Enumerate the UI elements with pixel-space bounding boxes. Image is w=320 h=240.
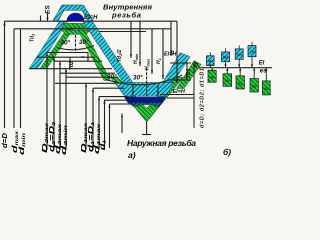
ES arrow vertical top-left (47, 14, 49, 22)
right flank level stub y63 (170, 62, 191, 64)
valley angle arc (106, 75, 182, 85)
right stub y94.5 (160, 94, 194, 96)
arrow line into V underside (121, 114, 123, 134)
rising flank cyan strip (160, 53, 190, 87)
level line y88 (93, 87, 124, 89)
svg-text:а): а) (128, 150, 136, 160)
tolerance box cyan 3 (235, 49, 243, 59)
svg-text:ES: ES (45, 5, 52, 14)
connector cyan2 (225, 62, 227, 68)
arrow axis cyan connector (238, 64, 240, 67)
left vertical dmin (20, 29, 22, 128)
arrow valley2 (157, 92, 159, 96)
svg-text:4h: 4h (210, 75, 215, 80)
right flank level stub y80 (173, 79, 191, 81)
connector green1 (211, 68, 213, 71)
svg-text:6h: 6h (225, 78, 230, 83)
left flank green zone strip (40, 24, 77, 69)
apex cyan cap (53, 5, 94, 21)
svg-text:4H: 4H (208, 59, 213, 64)
connector green3 (239, 68, 241, 76)
svg-text:30°: 30° (61, 39, 71, 47)
arrow H4 (162, 75, 164, 79)
svg-text:es: es (260, 69, 267, 75)
arrow at level line x109.5 (108, 104, 110, 107)
valley inner arrow line 1 (132, 85, 134, 97)
valley green V band (111, 78, 184, 123)
svg-text:6e: 6e (252, 84, 257, 89)
tolerance box cyan 1 (207, 56, 215, 66)
apex navy dome (rounded nut root) (67, 13, 84, 21)
mid level line y68.5 (band cut) (29, 68, 112, 70)
connector green5 (265, 68, 267, 81)
arrow axis green connector (226, 68, 228, 71)
connector green4 (253, 68, 255, 79)
arrow at level line x54 (53, 57, 55, 60)
tick above cyan box1 (209, 52, 211, 56)
svg-text:7H: 7H (249, 49, 254, 54)
svg-text:Наружная резьба: Наружная резьба (127, 138, 196, 148)
arrow at level line x86 (85, 83, 87, 86)
apex angle arc (57, 46, 94, 50)
rising flank green strip (177, 61, 202, 89)
H-stack vertical 3 (151, 29, 153, 74)
svg-text:EI=H: EI=H (84, 15, 98, 21)
svg-text:30°: 30° (79, 38, 89, 46)
nominal diameter vertical (193, 62, 195, 128)
connector cyan4 (251, 57, 253, 68)
tick below ES line (40, 16, 42, 22)
H-stack vertical 6 (176, 21, 178, 83)
arrow at level line x66 (65, 69, 67, 72)
arrow H6 (176, 79, 178, 83)
line below V tip (146, 122, 148, 135)
level line y31.5 (99, 31, 146, 33)
arrow H3 (151, 70, 153, 74)
interior tick x88 (87, 53, 89, 62)
T bar below V tip (142, 134, 151, 136)
arrow axis cyan connector (224, 64, 226, 67)
svg-text:30°: 30° (107, 73, 117, 81)
arrow H2 (139, 62, 141, 66)
cluster2 vertical 5 (109, 104, 111, 148)
tolerance box green 1 (208, 70, 216, 82)
descending flank cyan strip (83, 22, 134, 85)
svg-text:6d: 6d (264, 86, 269, 91)
arrow V underside (121, 114, 123, 118)
arrow valley1 (132, 92, 134, 96)
arrow at level line x93 (92, 88, 94, 91)
H-stack vertical 5 (170, 21, 172, 56)
valley inner arrow line 2 (157, 85, 159, 97)
svg-text:Td2: Td2 (69, 61, 75, 70)
tick above cyan box4 (251, 42, 253, 46)
arrow at level line x47 (46, 53, 48, 56)
cluster2 vertical D1max (85, 83, 87, 150)
valley navy band (rounded bolt root) (125, 97, 166, 102)
left vertical dmax (13, 29, 15, 128)
svg-text:6g: 6g (238, 81, 243, 86)
b-diagram (194, 62, 272, 128)
horizontal line y29 (14, 28, 171, 30)
arrow H5 (170, 52, 172, 56)
svg-text:6H: 6H (237, 52, 242, 57)
svg-text:резьба: резьба (111, 11, 141, 20)
valley cyan trapezoid (115, 83, 175, 97)
tolerance box cyan 2 (222, 52, 230, 62)
cluster1 vertical d2max (59, 61, 61, 150)
level line y83.5 to valley (55, 82, 116, 84)
dimension line network (5, 14, 195, 151)
right stub y98 (167, 97, 194, 99)
svg-text:H: H (170, 50, 176, 54)
tick above cyan box2 (225, 48, 227, 52)
tolerance box green 4 (250, 79, 258, 92)
zero axis (198, 67, 272, 69)
arrow at level line x104.5 (103, 100, 105, 103)
cluster1 vertical d2min (65, 69, 67, 150)
tick above cyan box3 (238, 45, 240, 49)
arrowheads (3, 18, 267, 118)
connector green2 (226, 68, 228, 74)
tolerance box green 3 (236, 76, 244, 89)
arrow at d=D top (3, 21, 5, 25)
svg-text:ЕI: ЕI (259, 61, 265, 67)
svg-text:EI=H: EI=H (173, 89, 186, 95)
H-stack vertical 4 (162, 29, 164, 79)
mid level line y61 (54, 60, 102, 62)
descending flank green strip (78, 30, 111, 81)
horizontal line y21 (crest D line) (5, 20, 178, 22)
interior tick x70 (69, 57, 71, 68)
arrow axis cyan connector (209, 64, 211, 67)
cluster1 vertical D2max (46, 53, 48, 151)
arrow at level line x99 (98, 97, 100, 100)
tolerance box cyan 4 (248, 46, 256, 57)
tooth centerline (75, 35, 77, 52)
cluster2 vertical d1min (104, 100, 106, 150)
level stub y104 (110, 103, 134, 105)
svg-text:0: 0 (194, 62, 198, 69)
arrow axis green connector (239, 68, 241, 71)
level line y100 (104, 99, 130, 101)
mid level line y77 (66, 76, 118, 78)
cluster2 vertical d1=D1 (92, 88, 94, 150)
arrow at level line x60 (59, 61, 61, 64)
apex green crest band (62, 24, 90, 29)
mid level line y57 (37, 56, 95, 58)
tolerance box green 2 (223, 74, 232, 87)
rotated small labels (0, 5, 205, 155)
tolerance box green 5 (262, 81, 270, 95)
connector cyan3 (238, 59, 240, 67)
arrow H1 (130, 54, 132, 58)
mid level line y52.5 (47, 52, 88, 54)
svg-text:TD1: TD1 (186, 68, 192, 78)
left vertical d=D (4, 21, 6, 128)
valley teal hatched strip (128, 103, 162, 108)
cluster2 vertical d1max (98, 97, 100, 150)
svg-text:d=D: d=D (0, 133, 9, 148)
connector cyan1 (209, 66, 211, 68)
cluster1 vertical d2=D2 (53, 57, 55, 150)
svg-text:5H: 5H (223, 55, 228, 60)
arrow axis start (193, 62, 195, 66)
valley centerline (146, 68, 148, 104)
left flank cyan zone strip (29, 22, 67, 69)
arrow axis green connector (253, 68, 255, 71)
apex green lower band (min-profile crest) (62, 30, 91, 34)
mid level line y73 (60, 72, 115, 74)
arrow axis green connector (211, 68, 213, 71)
H-stack vertical 2 (139, 21, 141, 66)
svg-text:d=D; d2=D2; d1=D1: d=D; d2=D2; d1=D1 (200, 68, 206, 128)
level line y96.5 (99, 96, 127, 98)
arrow ES (46, 18, 48, 22)
svg-text:б): б) (223, 147, 231, 157)
H-stack vertical 1 (130, 21, 132, 58)
arrow axis green connector (265, 68, 267, 71)
right flank TD1 dim vertical (186, 62, 188, 80)
arrow axis cyan connector (251, 64, 253, 67)
svg-text:30°: 30° (133, 74, 143, 82)
